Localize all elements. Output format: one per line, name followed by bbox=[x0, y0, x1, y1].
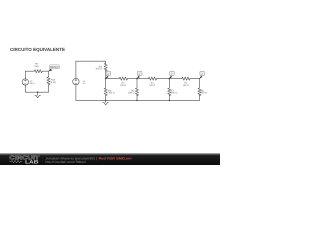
wire node C to R6 bbox=[169, 78, 182, 80]
svg-text:100 Ω: 100 Ω bbox=[183, 84, 189, 87]
svg-text:100 Ω: 100 Ω bbox=[149, 84, 155, 87]
node C junction dot bbox=[169, 78, 171, 80]
voltage source V1 (ladder) bbox=[73, 78, 79, 84]
svg-text:200 Ω: 200 Ω bbox=[128, 92, 135, 95]
probe box (left circuit, voltage label) bbox=[48, 65, 59, 72]
svg-text:100 Ω: 100 Ω bbox=[120, 84, 126, 87]
wire node B down bbox=[136, 79, 138, 88]
wire top into R1 bbox=[105, 61, 107, 63]
svg-text:500 mV: 500 mV bbox=[30, 82, 35, 85]
resistor shunt at node C bbox=[168, 88, 171, 96]
bottom rail junction dot under node C bbox=[169, 100, 171, 102]
voltage source V2 (left circuit) bbox=[22, 79, 28, 85]
logo resistor zigzag bbox=[9, 160, 22, 162]
svg-text:3 kΩ: 3 kΩ bbox=[51, 81, 56, 84]
ground (left circuit) bbox=[37, 92, 39, 95]
wire ladder left lower bbox=[75, 85, 77, 101]
svg-text:http://circuitlab.com/c7t8bwd: http://circuitlab.com/c7t8bwd bbox=[46, 160, 86, 164]
resistor R1 (series vertical) bbox=[104, 63, 107, 71]
svg-text:200 Ω: 200 Ω bbox=[171, 92, 178, 95]
wire left-circuit right side upper bbox=[48, 71, 50, 77]
svg-text:500.0mV: 500.0mV bbox=[50, 65, 59, 69]
wire shunt C to bottom rail bbox=[168, 95, 170, 101]
wire R1 to node A bbox=[105, 70, 107, 78]
wire node A down bbox=[105, 79, 107, 88]
bottom rail junction dot at ground bbox=[105, 100, 107, 102]
svg-text:200 Ω: 200 Ω bbox=[201, 92, 208, 95]
resistor R6 (series horizontal) bbox=[182, 77, 190, 80]
resistor R2 (series horizontal) bbox=[119, 77, 127, 80]
resistor shunt at node D bbox=[198, 88, 201, 96]
wire left-circuit bottom bbox=[25, 91, 48, 93]
node A junction dot bbox=[105, 78, 107, 80]
wire right side lower bbox=[48, 85, 50, 92]
ground (ladder) bbox=[105, 100, 107, 102]
wire ladder left upper bbox=[75, 61, 77, 78]
wire R6 to node D bbox=[190, 78, 200, 80]
wire node A to R2 bbox=[106, 78, 120, 80]
svg-text:CIRCUITO EQUIVALENTE: CIRCUITO EQUIVALENTE bbox=[10, 47, 65, 52]
wire R2 to node B bbox=[128, 78, 138, 80]
probe at node C bbox=[169, 71, 174, 79]
bottom rail junction dot under node B bbox=[136, 100, 138, 102]
wire left-circuit left lower bbox=[24, 85, 26, 92]
probe at node B bbox=[137, 71, 142, 79]
probe at node A bbox=[105, 71, 110, 79]
probe at node D bbox=[199, 71, 204, 79]
wire ladder bottom rail bbox=[76, 99, 200, 101]
svg-text:100 Ω: 100 Ω bbox=[95, 68, 102, 71]
svg-text:3 kΩ: 3 kΩ bbox=[34, 65, 39, 68]
wire shunt B to bottom rail bbox=[136, 95, 138, 101]
wire left-circuit top bbox=[25, 70, 34, 72]
resistor R4 (series horizontal) bbox=[148, 77, 156, 80]
wire node D down bbox=[199, 79, 201, 88]
svg-text:LAB: LAB bbox=[25, 160, 39, 165]
wire shunt D to bottom rail bbox=[199, 95, 201, 101]
resistor shunt at node B bbox=[135, 88, 138, 96]
wire top to right corner bbox=[42, 70, 48, 72]
wire node B to R4 bbox=[137, 78, 148, 80]
wire node C down bbox=[168, 79, 170, 88]
svg-text:200 Ω: 200 Ω bbox=[108, 92, 115, 95]
node B junction dot bbox=[136, 78, 138, 80]
wire left-circuit left upper bbox=[24, 71, 26, 79]
left ground junction dot bbox=[37, 91, 39, 93]
resistor shunt at node A bbox=[104, 88, 107, 96]
wire shunt A to bottom rail bbox=[105, 95, 107, 101]
resistor R10 (left circuit right, vertical) bbox=[47, 77, 50, 85]
wire R4 to node C bbox=[157, 78, 170, 80]
wire ladder top rail bbox=[76, 60, 106, 62]
resistor R9 (left circuit top) bbox=[34, 70, 42, 73]
